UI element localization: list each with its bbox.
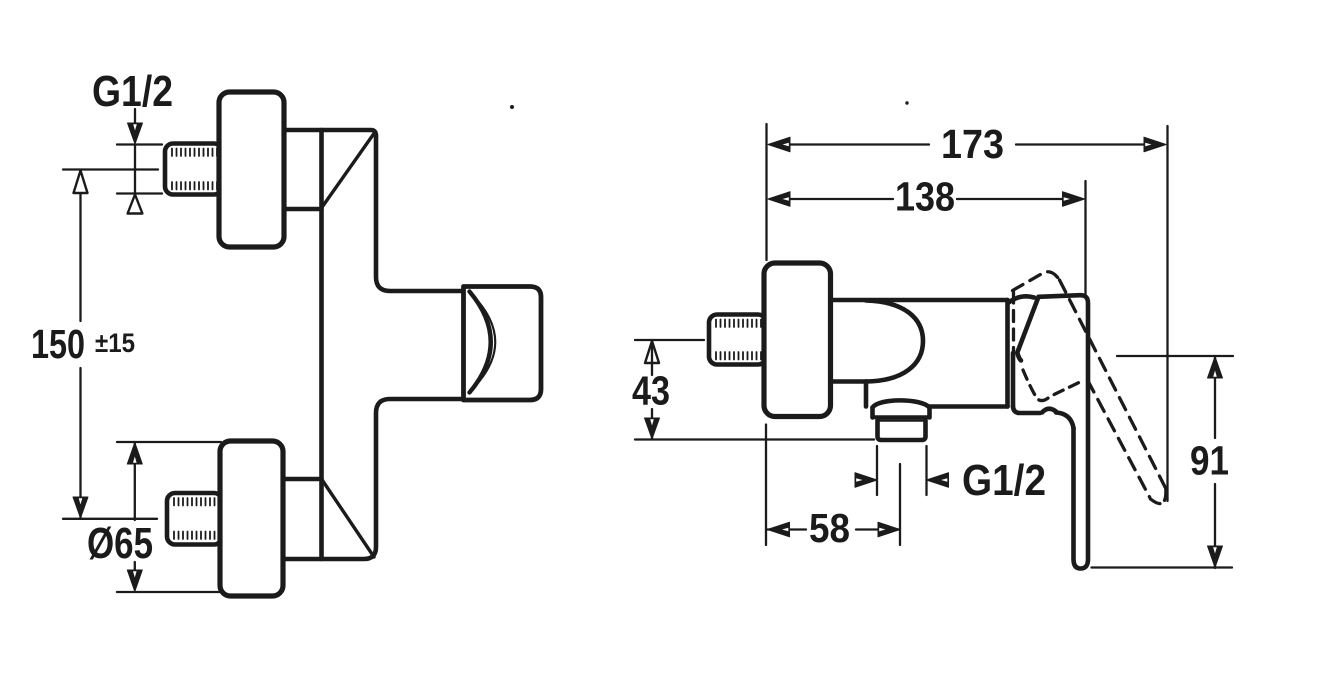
ledge bump — [1042, 409, 1056, 413]
body bottom edge — [930, 404, 1008, 409]
dashed lever tip cap — [1151, 489, 1166, 504]
dim 43 line upper — [651, 340, 653, 375]
neck top line (bottom assembly) — [284, 477, 322, 482]
top mounting nipple — [165, 144, 222, 195]
dim 173 arrow left — [768, 137, 790, 152]
dim O65 arrow down (solid) — [127, 570, 142, 592]
dashed cone bottom curve — [1023, 370, 1080, 401]
svg-text:G1/2: G1/2 — [92, 67, 173, 116]
dim 138 line — [790, 198, 1063, 200]
dim 138 extension — [1084, 181, 1086, 298]
dim 150 vertical line upper — [79, 170, 81, 321]
bottom mounting nipple — [167, 493, 222, 545]
dim 58 arrow left — [768, 522, 790, 537]
body plate stub bottom + right edge lower + bottom edge — [283, 399, 464, 559]
body right face — [1005, 300, 1010, 407]
dim G1/2 outlet left extension — [876, 446, 878, 495]
dim 91 line upper — [1214, 356, 1216, 438]
handle drum — [464, 287, 542, 401]
arrowhead white notches — [79, 124, 1217, 577]
step to lever ledge — [1013, 407, 1040, 414]
svg-text:58: 58 — [809, 505, 850, 551]
outlet thread step — [878, 419, 926, 422]
handle cap crescent outer arc — [470, 292, 491, 393]
nipple side thread hatching — [716, 320, 761, 328]
cone left edge — [1017, 297, 1038, 361]
svg-text:G1/2: G1/2 — [962, 456, 1046, 505]
body plate right edge upper + stub top — [376, 136, 464, 291]
speck dot left — [510, 105, 514, 109]
handle cap crescent inner arc — [472, 294, 496, 390]
escutcheon side — [764, 263, 831, 417]
dim 58 left extension — [765, 425, 767, 546]
dim 91 arrow down (solid) — [1208, 546, 1223, 568]
body plate left edge — [319, 130, 324, 559]
dim 58 line right — [856, 528, 899, 530]
G1/2 arrow up (outline) — [128, 195, 143, 214]
150 top reference line — [63, 168, 158, 170]
neck bottom line (top assembly) — [284, 207, 322, 212]
dim 150 arrow down (solid) — [73, 497, 88, 518]
ledge to lever corner — [1056, 413, 1074, 429]
dim G1/2 arrow pointing left — [927, 473, 949, 488]
dim O65 line lower — [134, 562, 136, 571]
dim 43 top tick — [635, 339, 704, 341]
dim 138 arrow right — [1063, 192, 1085, 207]
body barrel top — [831, 298, 1008, 303]
dim G1/2 outlet right extension — [925, 446, 927, 495]
150 bottom reference line — [63, 518, 157, 520]
dim 91 bottom tick — [1092, 566, 1233, 568]
dim 43 line lower — [651, 409, 653, 439]
svg-text:Ø65: Ø65 — [87, 519, 153, 568]
outlet centerline — [899, 464, 901, 545]
nipple side — [709, 315, 766, 365]
G1/2 tick top — [117, 143, 162, 145]
bottom nipple thread hatching — [174, 498, 215, 506]
dim 150 vertical line lower — [79, 368, 81, 518]
dashed cone left edge — [1012, 292, 1015, 351]
cartridge dome arc — [866, 301, 923, 382]
dim 91 line lower — [1214, 484, 1216, 568]
bottom escutcheon — [220, 441, 283, 596]
dim G1/2 arrow pointing right — [855, 473, 877, 488]
dim 173 left extension — [765, 124, 767, 260]
body barrel bottom left — [831, 379, 867, 384]
dim O65 line upper — [134, 442, 136, 520]
dashed lever upper edge — [1060, 280, 1166, 489]
dim 138 arrow left — [768, 192, 790, 207]
dim O65 arrow up (solid) — [127, 443, 142, 465]
dim 58 line left — [768, 528, 807, 530]
svg-text:91: 91 — [1190, 438, 1229, 484]
dim O65 bottom tick — [117, 591, 221, 593]
dim 91 arrow up (solid) — [1208, 357, 1223, 379]
svg-text:±15: ±15 — [95, 328, 135, 358]
outlet cylinder — [878, 420, 926, 440]
top escutcheon — [219, 92, 284, 247]
svg-text:150: 150 — [31, 321, 85, 367]
top nipple thread hatching — [172, 149, 217, 157]
outlet flange bottom — [873, 415, 930, 419]
solid lever + cone right edge — [1039, 295, 1089, 568]
outlet dome cap — [873, 400, 930, 407]
dim 43 bottom reference line — [635, 438, 874, 440]
cartridge cap arc — [1009, 296, 1035, 302]
body plate top edge — [284, 130, 376, 136]
dim 58 arrow right — [878, 522, 900, 537]
diagonal bottom — [323, 481, 375, 558]
svg-text:173: 173 — [941, 121, 1004, 167]
G1/2 leader line — [134, 109, 136, 124]
outlet flange sides — [873, 408, 930, 418]
cone base ring edge — [1011, 353, 1016, 407]
dashed cone top-left edge — [1013, 272, 1060, 291]
G1/2 arrow down (solid) — [128, 123, 143, 144]
dim 43 arrow up (outline) — [645, 341, 659, 363]
dim O65 top tick — [117, 441, 221, 443]
speck dot right — [905, 101, 908, 104]
dim 91 top tick — [1117, 355, 1233, 357]
dim 173 arrow right — [1144, 137, 1166, 152]
diagonal top — [323, 132, 376, 207]
svg-text:138: 138 — [895, 174, 955, 220]
dim 43 arrow down (solid) — [645, 418, 660, 439]
dim 173 line — [790, 143, 1145, 145]
dashed lever lower edge — [1088, 380, 1150, 498]
svg-text:43: 43 — [632, 368, 670, 414]
step below dome — [864, 382, 869, 407]
G1/2 dim line — [134, 145, 136, 194]
dim 173 right extension — [1166, 126, 1168, 501]
dim 150 arrow up (outline) — [74, 171, 88, 194]
G1/2 tick bottom — [117, 192, 162, 194]
